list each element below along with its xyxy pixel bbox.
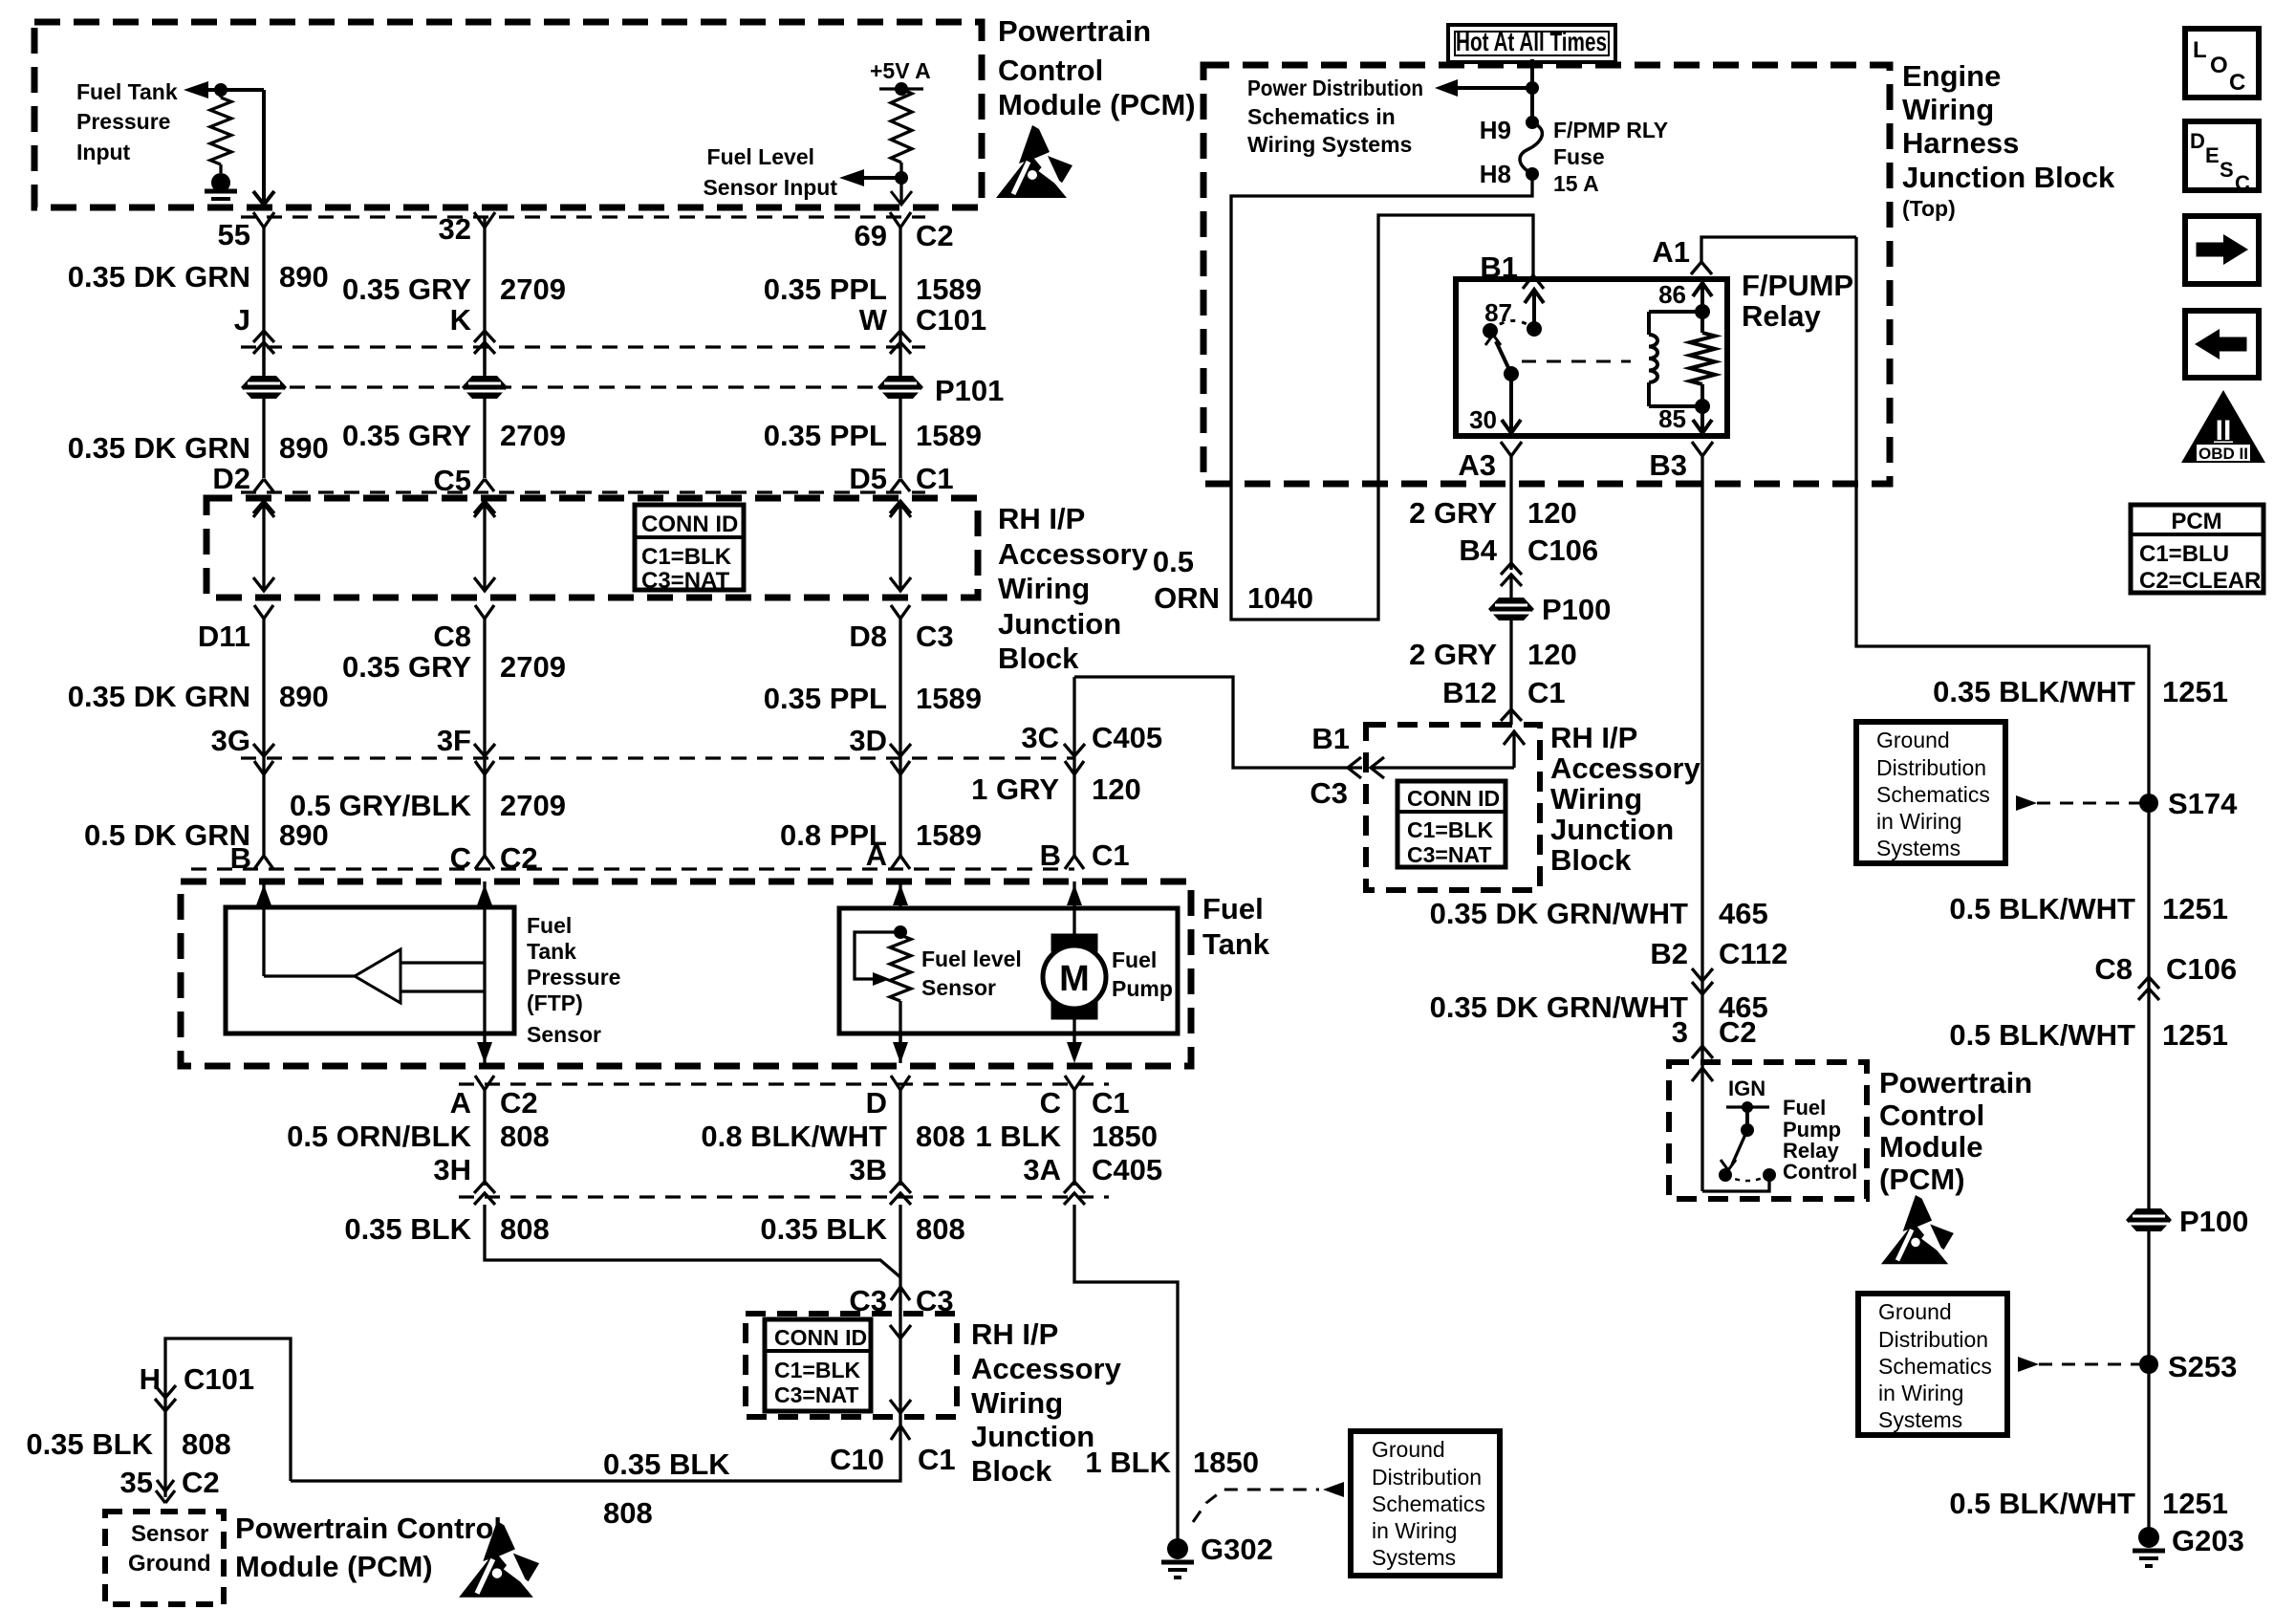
svg-text:0.5 ORN/BLK: 0.5 ORN/BLK bbox=[287, 1120, 472, 1153]
svg-text:C2=CLEAR: C2=CLEAR bbox=[2139, 568, 2261, 594]
svg-text:Powertrain: Powertrain bbox=[1879, 1066, 2032, 1099]
wire A into tank bbox=[899, 881, 901, 908]
svg-text:0.35 DK GRN/WHT: 0.35 DK GRN/WHT bbox=[1430, 897, 1688, 930]
svg-text:808: 808 bbox=[916, 1120, 965, 1153]
svg-text:H9: H9 bbox=[1480, 116, 1511, 144]
ESD symbol bbox=[1019, 125, 1050, 163]
wire 0.5 ORN 1040 fuse to relay B1 bbox=[1231, 174, 1533, 620]
connector P100 (A3) bbox=[1488, 598, 1534, 620]
wires below junction block bbox=[262, 619, 265, 856]
svg-text:C1: C1 bbox=[1092, 1086, 1130, 1120]
svg-text:2709: 2709 bbox=[500, 272, 566, 306]
FTP op-amp triangle bbox=[355, 949, 401, 1003]
svg-text:120: 120 bbox=[1527, 496, 1577, 530]
svg-text:A3: A3 bbox=[1458, 448, 1496, 482]
svg-text:Accessory: Accessory bbox=[971, 1352, 1122, 1385]
Ground Distribution box S253 bbox=[1858, 1294, 2007, 1435]
Ground Distribution Schematics box (G302) bbox=[1351, 1431, 1500, 1576]
wire into P100 bbox=[1509, 575, 1512, 725]
svg-text:W: W bbox=[859, 303, 888, 337]
svg-text:C3: C3 bbox=[916, 620, 954, 653]
svg-text:1850: 1850 bbox=[1092, 1120, 1158, 1153]
svg-text:C106: C106 bbox=[1527, 533, 1598, 567]
OBD II icon bbox=[2181, 390, 2265, 463]
svg-text:Block: Block bbox=[1550, 843, 1632, 877]
svg-text:Fuel: Fuel bbox=[1112, 947, 1157, 972]
node junction dot bbox=[214, 83, 227, 97]
svg-text:RH I/P: RH I/P bbox=[998, 502, 1085, 535]
RH I/P junction block 2 box dashed bbox=[746, 1314, 957, 1417]
svg-text:ORN: ORN bbox=[1154, 581, 1220, 615]
svg-text:1 BLK: 1 BLK bbox=[1085, 1446, 1171, 1479]
svg-text:890: 890 bbox=[279, 818, 329, 852]
svg-text:C1=BLK: C1=BLK bbox=[641, 544, 732, 570]
svg-text:C1: C1 bbox=[1527, 676, 1566, 709]
junction block pass-through arrows bbox=[262, 504, 265, 591]
relay coil bbox=[1649, 310, 1702, 314]
svg-text:in Wiring: in Wiring bbox=[1372, 1518, 1457, 1543]
svg-text:Fuel level: Fuel level bbox=[921, 946, 1022, 971]
relay actuation dashed line bbox=[1522, 360, 1631, 363]
connector P101 dashed line bbox=[264, 385, 900, 388]
wire B into tank bbox=[262, 881, 265, 907]
svg-text:C3=NAT: C3=NAT bbox=[641, 568, 730, 594]
svg-text:2 GRY: 2 GRY bbox=[1409, 496, 1497, 530]
svg-text:Block: Block bbox=[998, 642, 1079, 675]
svg-text:P100: P100 bbox=[2179, 1205, 2248, 1238]
svg-text:A1: A1 bbox=[1652, 235, 1690, 269]
svg-text:in Wiring: in Wiring bbox=[1878, 1381, 1963, 1405]
svg-text:1251: 1251 bbox=[2162, 892, 2228, 925]
svg-text:Systems: Systems bbox=[1372, 1545, 1456, 1570]
svg-text:C2: C2 bbox=[500, 1086, 538, 1120]
svg-text:O: O bbox=[2210, 53, 2228, 78]
FTP inputs from wire C bbox=[401, 961, 485, 964]
internal pin wire with up arrow bbox=[1700, 1062, 1703, 1191]
svg-text:890: 890 bbox=[279, 680, 329, 713]
svg-text:C: C bbox=[2229, 70, 2245, 96]
svg-text:Block: Block bbox=[971, 1454, 1052, 1488]
svg-text:0.5 GRY/BLK: 0.5 GRY/BLK bbox=[290, 789, 472, 822]
svg-text:Power Distribution: Power Distribution bbox=[1247, 76, 1423, 100]
svg-text:30: 30 bbox=[1469, 405, 1497, 434]
ESD symbol right bbox=[1903, 1195, 1932, 1231]
Hot At All Times box bbox=[1448, 25, 1615, 62]
svg-text:C1: C1 bbox=[916, 462, 954, 495]
svg-text:3C: 3C bbox=[1021, 721, 1059, 754]
svg-text:C3=NAT: C3=NAT bbox=[774, 1382, 858, 1407]
svg-text:Sensor: Sensor bbox=[131, 1521, 208, 1547]
svg-text:(PCM): (PCM) bbox=[1879, 1163, 1965, 1196]
connector C405 dashed line bbox=[241, 756, 1074, 759]
svg-text:C405: C405 bbox=[1092, 721, 1162, 754]
internal wire with up arrow bbox=[1512, 731, 1515, 768]
switch dotted arc bbox=[1725, 1175, 1769, 1181]
svg-text:Pump: Pump bbox=[1112, 976, 1173, 1001]
svg-text:0.5 DK GRN: 0.5 DK GRN bbox=[84, 818, 250, 852]
svg-text:Input: Input bbox=[76, 140, 131, 164]
pin A3 below relay bbox=[1501, 442, 1522, 456]
relay pin 87 arrow bbox=[1532, 290, 1536, 329]
CONN ID legend box 1 bbox=[635, 505, 744, 590]
left arrow icon box bbox=[2185, 311, 2259, 378]
svg-text:OBD II: OBD II bbox=[2199, 445, 2248, 463]
relay coil bumps bbox=[1649, 335, 1657, 347]
fuel pump motor M bbox=[1051, 934, 1097, 951]
+5V node bar bbox=[879, 87, 923, 90]
svg-text:808: 808 bbox=[916, 1212, 965, 1246]
svg-text:PCM: PCM bbox=[2171, 509, 2221, 534]
relay pin 30 wire bbox=[1509, 374, 1513, 433]
ground G302 bbox=[1167, 1538, 1188, 1559]
svg-text:3: 3 bbox=[1672, 1015, 1688, 1049]
svg-text:G203: G203 bbox=[2172, 1524, 2244, 1557]
svg-text:Module (PCM): Module (PCM) bbox=[235, 1550, 433, 1583]
RH I/P junction block right box dashed bbox=[1366, 725, 1540, 890]
wire A3 down (2 GRY 120) bbox=[1509, 456, 1512, 570]
svg-text:0.5 BLK/WHT: 0.5 BLK/WHT bbox=[1949, 1018, 2135, 1052]
svg-text:2709: 2709 bbox=[500, 650, 566, 684]
FTP sensor box bbox=[226, 907, 514, 1033]
svg-text:B1: B1 bbox=[1311, 722, 1350, 755]
svg-text:Pressure: Pressure bbox=[76, 109, 170, 134]
wire 890 segment 1 bbox=[262, 226, 265, 375]
svg-text:F/PMP RLY: F/PMP RLY bbox=[1553, 118, 1668, 142]
svg-text:P100: P100 bbox=[1542, 593, 1611, 626]
svg-text:+5V A: +5V A bbox=[870, 58, 931, 83]
svg-text:H8: H8 bbox=[1480, 160, 1511, 188]
svg-text:C1=BLU: C1=BLU bbox=[2139, 541, 2229, 567]
svg-text:Wiring Systems: Wiring Systems bbox=[1247, 132, 1412, 157]
svg-text:Schematics in: Schematics in bbox=[1247, 104, 1396, 129]
svg-text:D8: D8 bbox=[849, 620, 887, 653]
svg-text:2709: 2709 bbox=[500, 789, 566, 822]
P101 connector symbol wire 2709 bbox=[462, 376, 508, 399]
wire sensor ground leg bbox=[165, 1338, 291, 1497]
svg-text:RH I/P: RH I/P bbox=[1550, 721, 1637, 754]
F/PUMP Relay box bbox=[1456, 279, 1727, 436]
svg-text:120: 120 bbox=[1527, 638, 1577, 671]
arrow Fuel Level Sensor Input bbox=[864, 176, 901, 180]
svg-text:Ground: Ground bbox=[1876, 728, 1950, 752]
relay dotted arc bbox=[1490, 320, 1534, 331]
relay pin 86 arrow bbox=[1700, 283, 1704, 312]
svg-text:Distribution: Distribution bbox=[1876, 755, 1986, 780]
svg-text:Junction: Junction bbox=[971, 1420, 1094, 1453]
svg-text:0.35 BLK: 0.35 BLK bbox=[603, 1447, 730, 1481]
svg-text:C101: C101 bbox=[916, 303, 986, 337]
wire D down to C3 bbox=[899, 1205, 901, 1287]
svg-text:C2: C2 bbox=[1719, 1015, 1757, 1049]
DESC icon box bbox=[2185, 121, 2259, 190]
svg-text:1 BLK: 1 BLK bbox=[975, 1120, 1061, 1153]
svg-text:Pressure: Pressure bbox=[527, 965, 620, 990]
svg-text:RH I/P: RH I/P bbox=[971, 1317, 1058, 1351]
svg-text:120: 120 bbox=[1092, 772, 1141, 806]
wire 1 GRY 120 branch from junction bbox=[1074, 677, 1362, 768]
svg-text:F/PUMP: F/PUMP bbox=[1742, 269, 1853, 302]
svg-text:S174: S174 bbox=[2168, 787, 2238, 820]
svg-text:D: D bbox=[866, 1086, 887, 1120]
P101 connector symbol wire 890 bbox=[241, 376, 287, 399]
wire C10 down and left bbox=[291, 1417, 900, 1481]
FTP internal wire B leg bbox=[262, 907, 265, 976]
fuel tank connector dashed line bbox=[191, 867, 1074, 870]
svg-text:Schematics: Schematics bbox=[1876, 782, 1990, 807]
node dot fuel level sensor input bbox=[895, 171, 908, 185]
svg-text:Sensor: Sensor bbox=[921, 975, 996, 1000]
svg-text:0.35 PPL: 0.35 PPL bbox=[764, 272, 887, 306]
PCM box dashed (fuel pump relay control) bbox=[1669, 1062, 1867, 1199]
arrowheads into RH I/P block bbox=[1348, 757, 1361, 778]
svg-text:3G: 3G bbox=[211, 724, 250, 757]
internal switch output wire bbox=[1702, 1175, 1769, 1191]
svg-text:Wiring: Wiring bbox=[1902, 93, 1994, 126]
svg-text:15 A: 15 A bbox=[1553, 171, 1599, 196]
svg-text:E: E bbox=[2205, 143, 2220, 167]
svg-text:0.5 BLK/WHT: 0.5 BLK/WHT bbox=[1949, 1487, 2135, 1520]
ground G203 bbox=[2138, 1527, 2159, 1548]
switch arm with arrow bbox=[1732, 1130, 1747, 1164]
svg-text:86: 86 bbox=[1658, 280, 1686, 309]
svg-text:CONN ID: CONN ID bbox=[1407, 786, 1500, 811]
svg-text:1251: 1251 bbox=[2162, 1018, 2228, 1052]
fuel level sensor potentiometer bbox=[894, 925, 907, 939]
svg-text:CONN ID: CONN ID bbox=[641, 511, 738, 537]
svg-text:in Wiring: in Wiring bbox=[1876, 809, 1961, 834]
svg-text:C8: C8 bbox=[2094, 952, 2133, 986]
wires out of tank bottom bbox=[477, 1042, 492, 1063]
PCM module box (top left, dashed) bbox=[34, 22, 982, 207]
splice S174 bbox=[2139, 794, 2158, 813]
svg-text:35: 35 bbox=[120, 1466, 153, 1499]
svg-text:Ground: Ground bbox=[1372, 1437, 1445, 1462]
svg-text:0.35 GRY: 0.35 GRY bbox=[342, 419, 471, 452]
resistor fuel level pullup bbox=[891, 89, 912, 163]
svg-text:Engine: Engine bbox=[1902, 59, 2001, 93]
svg-text:0.35 GRY: 0.35 GRY bbox=[342, 650, 471, 684]
svg-text:Tank: Tank bbox=[1202, 927, 1270, 961]
svg-text:808: 808 bbox=[500, 1212, 550, 1246]
svg-text:D2: D2 bbox=[212, 462, 250, 495]
svg-text:Fuel Level: Fuel Level bbox=[707, 144, 814, 169]
svg-text:85: 85 bbox=[1658, 404, 1686, 433]
svg-text:Sensor: Sensor bbox=[527, 1022, 601, 1047]
svg-text:Junction Block: Junction Block bbox=[1902, 161, 2115, 194]
svg-text:D11: D11 bbox=[198, 620, 250, 653]
svg-text:Tank: Tank bbox=[527, 939, 576, 964]
svg-text:Ground: Ground bbox=[1878, 1299, 1952, 1324]
svg-text:Systems: Systems bbox=[1876, 836, 1960, 860]
svg-text:H: H bbox=[140, 1362, 161, 1396]
svg-text:Wiring: Wiring bbox=[1550, 782, 1642, 816]
svg-text:Junction: Junction bbox=[998, 607, 1121, 641]
svg-text:D5: D5 bbox=[849, 462, 887, 495]
svg-text:C3=NAT: C3=NAT bbox=[1407, 842, 1491, 867]
svg-text:C1=BLK: C1=BLK bbox=[1407, 817, 1493, 842]
svg-text:C1: C1 bbox=[1092, 838, 1130, 872]
dashed reference line to ground dist box bbox=[1193, 1490, 1319, 1522]
svg-text:Accessory: Accessory bbox=[1550, 751, 1701, 785]
svg-text:D: D bbox=[2190, 129, 2205, 153]
svg-text:0.35 PPL: 0.35 PPL bbox=[764, 419, 887, 452]
svg-text:0.35 GRY: 0.35 GRY bbox=[342, 272, 471, 306]
svg-text:Junction: Junction bbox=[1550, 813, 1674, 846]
LOC icon box bbox=[2185, 29, 2259, 98]
svg-text:0.35 BLK: 0.35 BLK bbox=[760, 1212, 887, 1246]
svg-text:B4: B4 bbox=[1459, 533, 1497, 567]
svg-text:0.35 BLK/WHT: 0.35 BLK/WHT bbox=[1933, 675, 2135, 708]
svg-text:C2: C2 bbox=[182, 1466, 220, 1499]
svg-text:69: 69 bbox=[855, 219, 887, 252]
wire through block down bbox=[899, 1287, 901, 1417]
svg-text:(FTP): (FTP) bbox=[527, 990, 583, 1015]
svg-text:890: 890 bbox=[279, 431, 329, 465]
svg-text:C1: C1 bbox=[918, 1443, 956, 1476]
svg-text:808: 808 bbox=[500, 1120, 550, 1153]
Ground Distribution box S174 bbox=[1856, 722, 2005, 863]
svg-text:C: C bbox=[1040, 1086, 1061, 1120]
wire to Power Distribution arrow bbox=[1443, 86, 1532, 90]
svg-text:B3: B3 bbox=[1649, 448, 1687, 482]
arrow to Fuel Tank Pressure Input bbox=[184, 81, 208, 98]
svg-text:1040: 1040 bbox=[1247, 581, 1313, 615]
wires into P101 bbox=[262, 347, 265, 478]
CONN ID legend box 2 bbox=[765, 1319, 871, 1411]
svg-text:C8: C8 bbox=[433, 620, 471, 653]
svg-text:0.35 DK GRN: 0.35 DK GRN bbox=[68, 260, 250, 294]
svg-text:Wiring: Wiring bbox=[998, 572, 1090, 605]
svg-text:Module: Module bbox=[1879, 1130, 1983, 1164]
svg-text:K: K bbox=[450, 303, 472, 337]
svg-text:J: J bbox=[234, 303, 250, 337]
svg-text:3A: 3A bbox=[1023, 1153, 1061, 1186]
connector C405 lower dashed line bbox=[459, 1195, 1109, 1198]
Engine Wiring Harness Junction Block box dashed bbox=[1203, 65, 1890, 484]
svg-text:C405: C405 bbox=[1092, 1153, 1162, 1186]
PCM connector legend box bbox=[2131, 505, 2264, 593]
svg-text:C101: C101 bbox=[184, 1362, 254, 1396]
svg-text:87: 87 bbox=[1484, 298, 1512, 327]
svg-text:1850: 1850 bbox=[1193, 1446, 1259, 1479]
svg-text:0.35 BLK: 0.35 BLK bbox=[344, 1212, 471, 1246]
connector C101 dashed line bbox=[241, 345, 925, 348]
right arrow icon box bbox=[2185, 216, 2259, 284]
svg-text:1589: 1589 bbox=[916, 682, 982, 715]
tank bottom connector dashed line bbox=[459, 1082, 1109, 1085]
svg-text:Module (PCM): Module (PCM) bbox=[998, 88, 1196, 121]
svg-text:3D: 3D bbox=[849, 724, 887, 757]
wire from Hot At All Times bbox=[1530, 59, 1534, 122]
svg-text:808: 808 bbox=[603, 1496, 653, 1530]
svg-text:Fuel: Fuel bbox=[1202, 892, 1264, 925]
svg-text:2 GRY: 2 GRY bbox=[1409, 638, 1497, 671]
svg-text:890: 890 bbox=[279, 260, 329, 294]
svg-text:Systems: Systems bbox=[1878, 1407, 1962, 1432]
CONN ID legend box right bbox=[1397, 781, 1505, 867]
svg-text:Fuel Tank: Fuel Tank bbox=[76, 79, 178, 104]
svg-text:A: A bbox=[866, 838, 887, 872]
svg-text:B: B bbox=[1040, 838, 1061, 872]
connector P100 right column bbox=[2126, 1208, 2172, 1231]
wire B3 down to PCM bbox=[1700, 456, 1703, 1062]
svg-text:Hot At All Times: Hot At All Times bbox=[1456, 27, 1607, 56]
svg-text:Ground: Ground bbox=[128, 1551, 211, 1577]
fuse F/PMP RLY 15A bbox=[1526, 116, 1539, 129]
relay armature pivot bbox=[1483, 323, 1498, 338]
svg-text:Distribution: Distribution bbox=[1878, 1327, 1988, 1352]
svg-text:L: L bbox=[2193, 37, 2207, 63]
svg-text:3H: 3H bbox=[433, 1153, 471, 1186]
wire C into tank bbox=[483, 881, 486, 1064]
svg-text:Schematics: Schematics bbox=[1878, 1354, 1992, 1379]
svg-text:CONN ID: CONN ID bbox=[774, 1325, 867, 1350]
svg-text:Control: Control bbox=[1783, 1160, 1857, 1184]
pin B3 below relay bbox=[1692, 442, 1713, 456]
wire J down from PCM bbox=[262, 90, 266, 205]
svg-text:465: 465 bbox=[1719, 897, 1768, 930]
pin C10 / C1 bbox=[891, 1425, 910, 1440]
splice S253 bbox=[2139, 1355, 2158, 1374]
connector C2 dashed line bbox=[241, 215, 925, 218]
svg-text:Sensor Input: Sensor Input bbox=[703, 175, 837, 200]
svg-text:A: A bbox=[450, 1086, 471, 1120]
svg-text:B2: B2 bbox=[1650, 937, 1688, 970]
svg-text:S: S bbox=[2220, 158, 2234, 182]
svg-text:1589: 1589 bbox=[916, 272, 982, 306]
Fuel Tank box dashed bbox=[181, 881, 1191, 1066]
svg-text:1 GRY: 1 GRY bbox=[971, 772, 1059, 806]
svg-text:IGN: IGN bbox=[1728, 1077, 1765, 1100]
svg-text:S253: S253 bbox=[2168, 1350, 2237, 1383]
svg-text:C106: C106 bbox=[2166, 952, 2237, 986]
svg-text:3F: 3F bbox=[437, 724, 471, 757]
svg-text:1251: 1251 bbox=[2162, 1487, 2228, 1520]
svg-text:0.5 BLK/WHT: 0.5 BLK/WHT bbox=[1949, 892, 2135, 925]
arrow S253 dashes bbox=[2018, 1357, 2039, 1372]
svg-text:Wiring: Wiring bbox=[971, 1386, 1063, 1420]
svg-text:0.35 DK GRN/WHT: 0.35 DK GRN/WHT bbox=[1430, 990, 1688, 1024]
ESD symbol bottom left bbox=[483, 1521, 515, 1561]
svg-text:C3: C3 bbox=[1310, 776, 1348, 810]
Sensor Ground box dashed bbox=[105, 1512, 224, 1604]
svg-text:3B: 3B bbox=[849, 1153, 887, 1186]
svg-text:1589: 1589 bbox=[916, 818, 982, 852]
resistor in PCM (FTP pullup) bbox=[219, 90, 222, 98]
svg-text:(Top): (Top) bbox=[1902, 196, 1956, 221]
svg-text:Powertrain: Powertrain bbox=[998, 14, 1151, 48]
svg-text:Powertrain Control: Powertrain Control bbox=[235, 1512, 502, 1545]
wire 3H jog to C3 bbox=[485, 1205, 900, 1277]
svg-text:Fuse: Fuse bbox=[1553, 144, 1605, 169]
svg-text:32: 32 bbox=[439, 212, 471, 246]
svg-text:P101: P101 bbox=[935, 374, 1004, 407]
svg-text:C: C bbox=[2235, 171, 2250, 195]
svg-text:0.35 DK GRN: 0.35 DK GRN bbox=[68, 680, 250, 713]
svg-text:Fuel: Fuel bbox=[527, 913, 572, 938]
svg-text:0.8 BLK/WHT: 0.8 BLK/WHT bbox=[701, 1120, 887, 1153]
arrow S174 dashes bbox=[2016, 795, 2037, 811]
svg-text:C2: C2 bbox=[916, 219, 954, 252]
svg-text:0.35 DK GRN: 0.35 DK GRN bbox=[68, 431, 250, 465]
ground in PCM bbox=[211, 173, 230, 192]
P101 connector symbol wire 1589 bbox=[877, 376, 923, 399]
svg-text:Distribution: Distribution bbox=[1372, 1465, 1482, 1490]
svg-text:2709: 2709 bbox=[500, 419, 566, 452]
svg-text:808: 808 bbox=[182, 1427, 231, 1461]
svg-text:Accessory: Accessory bbox=[998, 537, 1149, 571]
wire A1 to right column bbox=[1856, 237, 2149, 1539]
